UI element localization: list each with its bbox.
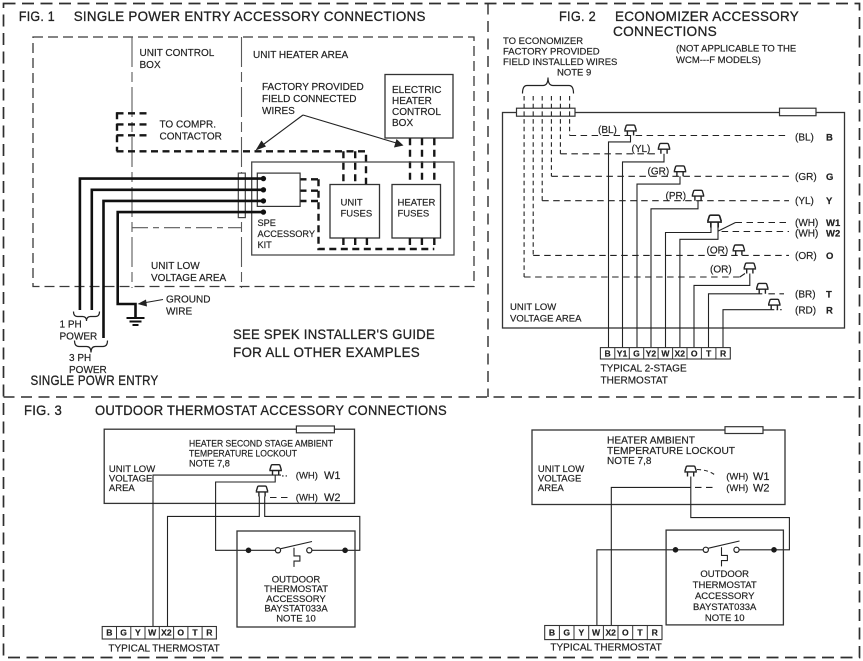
wire nut (GR) [674,166,687,176]
wire nut BL to terminal B [609,136,631,348]
svg-text:R: R [206,628,213,638]
svg-text:T: T [192,628,198,638]
svg-text:FIG. 1: FIG. 1 [19,9,55,25]
contactor bus left vertical [116,112,118,151]
svg-text:TYPICAL THERMOSTAT: TYPICAL THERMOSTAT [108,644,219,655]
wire nut W2 (left) [256,486,269,496]
brace: 3 PH [75,341,108,353]
unit heater accessory panel box [252,162,454,255]
svg-text:NOTE 10: NOTE 10 [276,613,316,624]
svg-text:T: T [637,628,643,638]
unit fuses box [330,185,380,239]
svg-text:TYPICAL THERMOSTAT: TYPICAL THERMOSTAT [550,643,661,654]
svg-text:BAYSTAT033A: BAYSTAT033A [693,602,757,613]
FIG.2 unit box [503,113,845,329]
svg-text:FIELD INSTALLED WIRES: FIELD INSTALLED WIRES [503,57,617,68]
svg-text:(OR): (OR) [707,246,729,257]
svg-text:THERMOSTAT: THERMOSTAT [601,376,668,387]
unit low voltage area divider [132,227,242,229]
svg-text:Y1: Y1 [617,348,628,358]
svg-text:TO COMPR.: TO COMPR. [160,120,216,131]
svg-text:R: R [826,306,833,317]
svg-text:WCM---F MODELS): WCM---F MODELS) [676,55,761,66]
terminal W wire to switch left [597,550,676,626]
unit control / heater area divider [241,37,243,288]
divider above FIG.3 [4,396,860,398]
svg-text:W1: W1 [324,470,341,482]
spe kit dashed stubs [288,178,319,180]
left sleeve connector [296,426,334,433]
heater fuses box [392,185,441,239]
svg-text:(WH): (WH) [296,471,318,482]
svg-text:(BL): (BL) [795,133,814,144]
economizer field wires (6 dashed) [523,96,525,277]
W2 nut legs to X2 and switch [168,497,260,627]
unit control box divider [131,37,133,288]
svg-text:UNIT: UNIT [341,198,363,209]
svg-text:FIELD CONNECTED: FIELD CONNECTED [262,94,356,105]
left outdoor thermostat box [237,531,355,627]
W1 wire to terminal W [153,475,281,626]
power wire L3 [104,201,264,338]
arrow to field wire bus [260,115,303,147]
svg-text:W2: W2 [324,492,341,504]
wire nut WH left leg to terminal W [666,227,712,348]
FIG.1 unit area dashed boundary box [33,37,474,287]
svg-text:(WH): (WH) [726,472,748,483]
svg-text:W: W [661,348,670,358]
terminal T wire to nut BR [709,294,763,348]
wire nut YL to terminal Y1 [623,154,665,348]
wire nut W1 (left) [269,465,282,475]
bottom dashed bus in accessory panel [319,179,435,249]
svg-text:FUSES: FUSES [341,209,373,220]
power wire L1 [80,179,264,310]
terminal R wire to nut RD [723,310,774,348]
svg-text:B: B [106,628,112,638]
svg-text:W: W [148,628,157,638]
svg-text:AREA: AREA [538,483,565,494]
svg-text:X2: X2 [605,628,616,638]
brace over economizer wires [523,78,574,94]
svg-text:UNIT LOW: UNIT LOW [510,302,556,313]
svg-text:(YL): (YL) [795,196,814,207]
svg-text:(BL): (BL) [598,125,617,136]
svg-text:(OR): (OR) [795,251,817,262]
svg-text:ACCESSORY: ACCESSORY [258,229,316,239]
svg-text:ACCESSORY: ACCESSORY [695,591,755,602]
svg-text:GROUND: GROUND [166,295,210,306]
right typical thermostat terminal strip [545,626,662,640]
svg-text:TO ECONOMIZER: TO ECONOMIZER [503,36,583,47]
svg-text:UNIT HEATER AREA: UNIT HEATER AREA [253,50,349,61]
svg-text:FOR ALL OTHER EXAMPLES: FOR ALL OTHER EXAMPLES [233,345,420,361]
svg-text:FACTORY PROVIDED: FACTORY PROVIDED [262,82,364,93]
stub (RD)-R [777,309,784,311]
svg-text:(WH): (WH) [726,483,748,494]
switch pivot circles [275,548,280,553]
wire row (GR)-G [551,175,789,177]
switch wire segments [249,549,276,551]
svg-text:CONTACTOR: CONTACTOR [160,132,222,143]
wire row (OR)-O [533,254,789,256]
wire row (PR)-Y [542,200,789,202]
svg-text:SEE SPEK INSTALLER'S GUIDE: SEE SPEK INSTALLER'S GUIDE [233,327,435,343]
svg-text:NOTE 10: NOTE 10 [705,613,745,624]
switch blade (right) [709,541,740,548]
svg-text:VOLTAGE AREA: VOLTAGE AREA [151,273,227,284]
svg-text:UNIT LOW: UNIT LOW [151,261,200,272]
switch pivot circles (right) [703,547,708,552]
svg-text:R: R [652,628,659,638]
switch contact dots [246,548,252,554]
svg-text:HEATER: HEATER [398,198,436,209]
typical 2-stage thermostat terminal strip [600,348,730,359]
svg-text:SINGLE POWER ENTRY ACCESSORY C: SINGLE POWER ENTRY ACCESSORY CONNECTIONS [74,9,426,25]
wire nut OR2 to terminal O [694,274,750,348]
svg-text:CONTROL: CONTROL [392,107,441,118]
svg-text:SPE: SPE [258,218,276,228]
terminal X2 wire to nut [611,487,691,625]
svg-text:(OR): (OR) [710,265,732,276]
svg-text:T: T [706,348,712,358]
stub (BR)-T [768,293,784,295]
heater control box dashed drops [409,138,411,184]
svg-text:HEATER AMBIENT: HEATER AMBIENT [607,436,695,447]
W1 branch to switch [216,475,276,550]
svg-text:W1: W1 [826,218,841,229]
svg-text:AREA: AREA [109,483,136,494]
svg-text:OUTDOOR THERMOSTAT ACCESSORY C: OUTDOOR THERMOSTAT ACCESSORY CONNECTIONS [95,403,447,419]
svg-text:(GR): (GR) [795,172,817,183]
switch adjuster zigzag [294,548,300,567]
right lockout box [532,430,785,505]
ground symbol [127,317,145,319]
svg-text:FIG. 2: FIG. 2 [559,9,596,25]
svg-text:B: B [549,628,555,638]
left lockout box [104,429,354,503]
svg-text:X2: X2 [161,628,172,638]
svg-text:Y2: Y2 [646,348,657,358]
svg-text:(RD): (RD) [795,306,816,317]
svg-text:ELECTRIC: ELECTRIC [392,85,441,96]
svg-text:CONNECTIONS: CONNECTIONS [613,24,717,40]
wire nut (WH) W1/W2 [707,215,722,227]
wire nut (BR) [756,283,769,293]
right outdoor thermostat box [666,530,783,625]
wire nut (BL) [624,125,637,135]
svg-text:TEMPERATURE LOCKOUT: TEMPERATURE LOCKOUT [189,449,297,459]
svg-text:3 PH: 3 PH [69,353,91,364]
svg-text:ECONOMIZER ACCESSORY: ECONOMIZER ACCESSORY [615,9,799,25]
diagonal into nut OR2 [740,274,745,278]
left typical thermostat terminal strip [102,627,216,640]
svg-text:HEATER: HEATER [392,96,432,107]
arrow to heater control wires [303,115,398,144]
nut wire down to switch right [691,477,790,550]
W2 dashed stub + label (right) [695,486,716,488]
svg-text:SINGLE POWR ENTRY: SINGLE POWR ENTRY [31,373,159,389]
switch blade [281,542,312,549]
W2 dashed stub + label [270,497,290,499]
svg-text:T: T [826,290,832,301]
divider between FIG.1 and FIG.2 [487,4,489,398]
svg-text:THERMOSTAT: THERMOSTAT [693,580,757,591]
wire nut WH (right) [684,466,697,476]
svg-text:W2: W2 [826,229,840,240]
svg-text:WIRE: WIRE [166,307,192,318]
svg-text:POWER: POWER [60,332,98,343]
svg-text:BOX: BOX [140,60,161,71]
svg-text:(GR): (GR) [648,167,670,178]
svg-text:G: G [120,628,127,638]
wire nut (RD) [768,299,781,309]
wire nut (OR) second [744,263,757,273]
svg-text:FUSES: FUSES [398,209,430,220]
svg-text:W: W [592,628,601,638]
svg-text:(PR): (PR) [666,191,687,202]
wire row (OR) second [524,276,740,278]
wire row W2 [722,231,789,233]
W1 dotted stub + label [282,475,287,477]
svg-text:W1: W1 [753,471,770,483]
fuse box bottom dashed drops [342,238,344,249]
svg-text:NOTE 9: NOTE 9 [557,68,591,79]
svg-text:FIG. 3: FIG. 3 [24,403,62,419]
electric heater control box [385,75,453,139]
svg-text:BOX: BOX [392,118,413,129]
wire nut PR to terminal Y2 [651,201,698,348]
svg-text:UNIT CONTROL: UNIT CONTROL [140,48,215,59]
unit fuses feed dashed drops [342,151,344,184]
svg-text:HEATER SECOND STAGE AMBIENT: HEATER SECOND STAGE AMBIENT [189,439,333,449]
wire entry sleeve connector [238,173,245,218]
svg-text:O: O [177,628,184,638]
switch wire segments (right) [676,549,704,551]
svg-text:X2: X2 [675,348,686,358]
ground wire [118,212,264,317]
wire row W1 [718,223,735,232]
svg-text:(NOT APPLICABLE TO THE: (NOT APPLICABLE TO THE [676,44,796,55]
svg-text:NOTE 7,8: NOTE 7,8 [189,459,230,469]
spe accessory kit terminal box [257,173,300,206]
left wiring sleeve connector [517,108,576,116]
W1 dashed diagonal + label (right) [697,470,716,477]
wire nut GR to terminal G [637,176,680,347]
svg-text:R: R [720,348,727,358]
svg-text:W2: W2 [753,483,770,495]
svg-text:O: O [826,251,833,262]
svg-text:(WH): (WH) [296,493,318,504]
svg-text:WIRES: WIRES [262,106,295,117]
svg-text:VOLTAGE AREA: VOLTAGE AREA [510,314,582,325]
right wiring sleeve connector [780,108,817,116]
switch contact dots (right) [673,547,679,553]
svg-text:(WH): (WH) [795,229,818,240]
wire nut WH right leg to terminal X2 [680,227,718,348]
svg-text:Y: Y [826,196,833,207]
factory provided field wires bus [117,151,367,184]
power wire L2 [92,190,264,310]
svg-text:O: O [691,348,698,358]
wire row (YL) to nut [560,153,658,155]
svg-text:G: G [633,348,640,358]
svg-text:B: B [826,133,833,144]
svg-text:O: O [622,628,629,638]
svg-text:Y: Y [135,628,141,638]
right sleeve connector [725,427,763,434]
svg-text:Y: Y [579,628,585,638]
wire nut (YL) [658,143,671,153]
to-compressor-contactor dashed stubs [117,112,149,114]
svg-text:B: B [604,348,610,358]
svg-text:FACTORY PROVIDED: FACTORY PROVIDED [503,47,600,58]
svg-text:(YL): (YL) [632,144,651,155]
svg-text:(BR): (BR) [795,290,816,301]
wire row (BL)-B [570,135,789,137]
svg-text:OUTDOOR: OUTDOOR [700,569,749,580]
brace: 1 PH [74,312,100,322]
svg-text:KIT: KIT [258,240,273,250]
wire nut (OR) row O [733,245,746,255]
svg-text:TYPICAL 2-STAGE: TYPICAL 2-STAGE [601,364,687,375]
spe terminal dots [261,176,266,181]
svg-text:NOTE 7,8: NOTE 7,8 [607,456,652,467]
wire nut (PR) [692,190,705,200]
svg-text:G: G [826,172,833,183]
switch adjuster zigzag (right) [722,547,728,566]
svg-text:1 PH: 1 PH [60,320,82,331]
svg-text:(WH): (WH) [795,218,818,229]
svg-text:G: G [563,628,570,638]
